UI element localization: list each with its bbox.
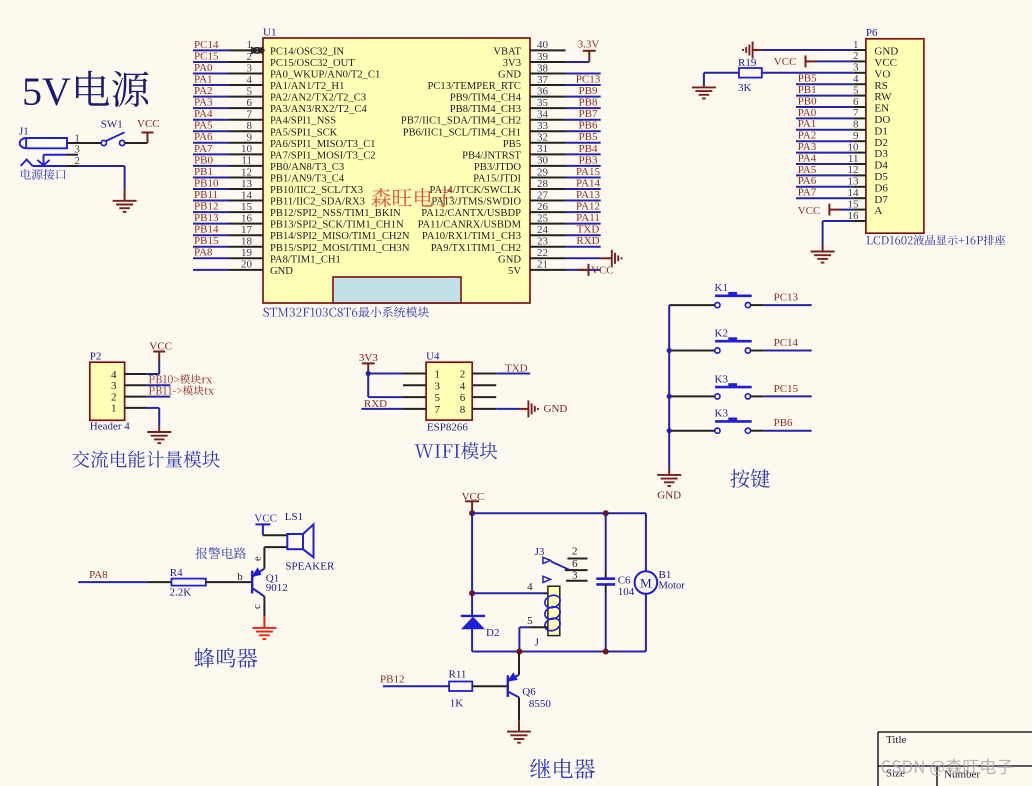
wire SW1 to VCC	[125, 142, 148, 144]
P6 pin 4 RS	[796, 73, 888, 92]
wire U4 pin 7 net RXD	[361, 398, 426, 410]
svg-text:PA4: PA4	[798, 152, 817, 164]
svg-text:6: 6	[853, 96, 859, 108]
speaker LS1	[285, 511, 335, 573]
svg-text:VCC: VCC	[798, 205, 821, 217]
svg-text:Size: Size	[886, 768, 905, 780]
node key bus junction	[667, 348, 672, 353]
wire Q6 collector up	[518, 652, 520, 675]
svg-text:3: 3	[853, 62, 859, 74]
svg-text:PA2: PA2	[798, 130, 817, 142]
svg-text:U4: U4	[426, 351, 440, 363]
svg-text:PB13/SPI2_SCK/TIM1_CH1N: PB13/SPI2_SCK/TIM1_CH1N	[270, 220, 404, 231]
power port 3V3	[359, 352, 378, 397]
U1 pin 39 3V3	[503, 51, 590, 69]
svg-text:PA8: PA8	[89, 569, 108, 581]
svg-text:PB3/JTDO: PB3/JTDO	[474, 162, 521, 173]
watermark red	[371, 188, 453, 207]
wire R11 to Q6 base	[472, 685, 508, 687]
svg-text:LS1: LS1	[285, 511, 303, 523]
ground P6	[811, 252, 835, 263]
svg-text:PB4/JNTRST: PB4/JNTRST	[462, 150, 521, 161]
U1 pin 11 PB0/AN8/T3_C3	[193, 154, 344, 173]
P2 pin 3	[111, 380, 147, 392]
U1 pin 24 PA10/RX1/TIM1_CH3	[422, 224, 601, 243]
svg-text:1: 1	[435, 369, 441, 381]
svg-text:PA2/AN2/TX2/T2_C3: PA2/AN2/TX2/T2_C3	[270, 93, 366, 104]
svg-text:PA1: PA1	[194, 73, 213, 85]
svg-text:TXD: TXD	[577, 224, 600, 236]
svg-text:PB0: PB0	[798, 95, 817, 107]
svg-text:6: 6	[572, 558, 578, 570]
svg-text:PA13/JTMS/SWDIO: PA13/JTMS/SWDIO	[431, 197, 521, 208]
svg-text:VBAT: VBAT	[493, 46, 521, 57]
svg-text:PC14: PC14	[774, 337, 799, 349]
svg-text:PB14: PB14	[194, 224, 219, 236]
buzzer section caption	[194, 648, 257, 668]
svg-text:D6: D6	[874, 182, 888, 194]
svg-text:3: 3	[247, 62, 253, 74]
title block labels	[886, 734, 980, 781]
svg-text:Motor: Motor	[659, 580, 686, 591]
node bottom junction C6	[603, 649, 609, 655]
svg-text:RXD: RXD	[576, 235, 599, 247]
ground P2	[147, 432, 171, 443]
svg-text:RS: RS	[874, 80, 887, 92]
connector P2 Header 4 body	[90, 362, 125, 420]
svg-text:EN: EN	[874, 103, 889, 115]
svg-text:PA3: PA3	[194, 97, 213, 109]
wire U4 pin 5	[368, 396, 426, 398]
svg-text:10: 10	[241, 143, 253, 155]
resistor R19	[704, 57, 853, 94]
svg-text:GND: GND	[874, 46, 898, 58]
svg-text:VCC: VCC	[254, 513, 277, 525]
J3 pin 3	[566, 569, 587, 581]
svg-text:3.3V: 3.3V	[578, 38, 600, 50]
svg-text:PC15/OSC32_OUT: PC15/OSC32_OUT	[270, 58, 355, 69]
svg-text:2: 2	[247, 51, 253, 63]
svg-text:PA0: PA0	[194, 62, 213, 74]
P6 pin 3 VO	[853, 62, 890, 81]
svg-text:VO: VO	[874, 68, 890, 80]
svg-text:PB0: PB0	[194, 154, 213, 166]
svg-text:b: b	[237, 571, 243, 583]
P6 pin 16	[848, 210, 866, 222]
svg-text:PC14: PC14	[194, 39, 219, 51]
svg-text:PB5: PB5	[579, 131, 598, 143]
pushbutton K3 net PC15	[669, 373, 812, 399]
svg-text:6: 6	[460, 392, 466, 404]
node 3V3 junction	[366, 371, 371, 376]
svg-text:PA6/SPI1_MISO/T3_C1: PA6/SPI1_MISO/T3_C1	[270, 139, 376, 150]
svg-text:5V: 5V	[22, 69, 71, 114]
svg-text:3: 3	[435, 380, 441, 392]
svg-text:SW1: SW1	[101, 118, 123, 130]
svg-text:ESP8266: ESP8266	[427, 422, 468, 434]
U1 pin 35 PB8/TIM4_CH3	[450, 97, 601, 116]
svg-text:Header 4: Header 4	[90, 420, 131, 432]
svg-text:D7: D7	[874, 194, 888, 206]
svg-text:19: 19	[241, 247, 253, 259]
relay coil J	[535, 586, 562, 648]
svg-text:PB13: PB13	[194, 212, 219, 224]
svg-text:31: 31	[537, 143, 548, 155]
svg-text:9: 9	[247, 132, 253, 144]
svg-text:e: e	[253, 556, 264, 561]
relay section caption	[530, 759, 595, 779]
svg-text:PA5/SPI1_SCK: PA5/SPI1_SCK	[270, 127, 338, 138]
svg-text:11: 11	[241, 155, 252, 167]
svg-text:GND: GND	[498, 254, 521, 265]
svg-text:K2: K2	[715, 328, 728, 340]
U1 pin 36 PB9/TIM4_CH4	[450, 85, 601, 104]
U1 pin 16 PB13/SPI2_SCK/TIM1_CH1N	[193, 212, 404, 231]
U1 pin 17 PB14/SPI2_MISO/TIM1_CH2N	[193, 224, 410, 243]
wire coil pin 5	[519, 615, 548, 652]
connector P6 LCD header body	[866, 39, 924, 233]
power port VCC buzzer	[254, 513, 277, 536]
U4 pins 7/8	[435, 404, 466, 416]
J1 pin 1	[67, 132, 102, 144]
wire Q1 emitter to speaker	[264, 547, 287, 569]
resistor R11 1K	[449, 669, 473, 710]
P2 pin 1	[111, 403, 147, 415]
svg-text:PB0/AN8/T3_C3: PB0/AN8/T3_C3	[270, 162, 344, 173]
svg-text:PA1/AN1/T2_H1: PA1/AN1/T2_H1	[270, 81, 344, 92]
svg-text:PA3: PA3	[798, 141, 817, 153]
power port VCC	[137, 118, 160, 143]
svg-text:18: 18	[241, 236, 253, 248]
svg-text:PB3: PB3	[579, 154, 598, 166]
svg-text:3V3: 3V3	[503, 58, 521, 69]
U4 pins 1/2	[435, 369, 466, 381]
svg-text:C6: C6	[618, 574, 631, 586]
ground red buzzer	[252, 628, 276, 639]
node VCC junction	[469, 510, 475, 516]
svg-text:1K: 1K	[450, 698, 464, 710]
wire P2 pin 1 to ground	[147, 408, 159, 432]
U1 pin 2 PC15/OSC32_OUT	[193, 50, 355, 69]
svg-text:PB8/TIM4_CH3: PB8/TIM4_CH3	[450, 104, 521, 115]
alarm caption	[196, 547, 246, 559]
U1 pin 37 PC13/TEMPER_RTC	[427, 73, 600, 92]
svg-text:VCC: VCC	[591, 265, 614, 277]
svg-text:PB1: PB1	[194, 166, 213, 178]
wire Q6 emitter to ground	[518, 697, 520, 731]
svg-text:5: 5	[247, 85, 253, 97]
wire left rail	[471, 513, 473, 651]
svg-text:5V: 5V	[508, 266, 521, 277]
U1 pin 31 PB4/JNTRST	[462, 143, 601, 162]
svg-text:VCC: VCC	[874, 57, 897, 69]
svg-text:15: 15	[848, 198, 860, 210]
transistor Q1 9012 PNP	[252, 568, 288, 596]
svg-text:D1: D1	[874, 125, 887, 137]
switch SW1	[101, 118, 125, 145]
wire U4 pin 6 stub	[472, 396, 496, 398]
svg-text:PA13: PA13	[576, 189, 601, 201]
wire P2 pin 2 net PB11	[147, 396, 171, 398]
U1 pin 30 PB3/JTDO	[474, 154, 601, 173]
svg-text:4: 4	[527, 581, 533, 593]
U1 internal display sub-block	[333, 277, 461, 303]
svg-text:PA10/RX1/TIM1_CH3: PA10/RX1/TIM1_CH3	[422, 231, 521, 242]
svg-text:PA12: PA12	[576, 201, 600, 213]
svg-text:PA15: PA15	[576, 166, 601, 178]
U1 pin 28 PA14/JTCK/SWCLK	[430, 177, 601, 196]
svg-text:2: 2	[853, 50, 859, 62]
P2 section caption	[72, 451, 220, 468]
U1 pin 29 PA15/JTDI	[473, 166, 601, 185]
svg-text:R11: R11	[449, 669, 467, 681]
U1 pin 34 PB7/IIC1_SDA/TIM4_CH2	[401, 108, 601, 127]
svg-text:GND: GND	[498, 70, 521, 81]
U1 pin 6 PA3/AN3/RX2/T2_C4	[193, 97, 367, 116]
svg-text:PA14/JTCK/SWCLK: PA14/JTCK/SWCLK	[430, 185, 522, 196]
svg-text:10: 10	[848, 141, 860, 153]
wire U4 pin 1	[368, 373, 426, 375]
node key bus junction	[667, 394, 672, 399]
P6 pin 12 D5	[796, 164, 888, 183]
resistor R4 2.2K	[170, 567, 206, 599]
svg-text:4: 4	[853, 73, 859, 85]
svg-text:PB1: PB1	[798, 84, 817, 96]
svg-text:PB14/SPI2_MISO/TIM1_CH2N: PB14/SPI2_MISO/TIM1_CH2N	[270, 231, 410, 242]
svg-text:PB8: PB8	[579, 97, 598, 109]
P6 caption	[867, 235, 1006, 245]
title block frame	[878, 732, 1032, 786]
U1 pin 32 PB5	[503, 131, 601, 150]
P6 pin 2 VCC	[853, 50, 897, 69]
ground Q6	[507, 732, 531, 743]
svg-text:GND: GND	[544, 403, 568, 415]
svg-text:2: 2	[111, 391, 117, 403]
P6 pin 6 EN	[796, 95, 889, 114]
svg-text:PB10: PB10	[194, 177, 219, 189]
svg-text:D5: D5	[874, 171, 888, 183]
ground GND keys	[657, 475, 681, 502]
wire P2 pin 3 net PB10	[147, 384, 171, 386]
U4 pins 3/4	[435, 380, 466, 392]
svg-text:K3: K3	[715, 408, 729, 420]
keys section caption	[730, 469, 770, 488]
U1 pin 15 PB12/SPI2_NSS/TIM1_BKIN	[193, 201, 401, 220]
svg-text:14: 14	[241, 189, 253, 201]
U1 pin 20 GND	[193, 259, 293, 277]
svg-text:6: 6	[247, 97, 253, 109]
svg-text:PA5: PA5	[194, 120, 213, 132]
svg-text:2.2K: 2.2K	[170, 587, 192, 599]
ground at U1 pin 22	[601, 250, 622, 267]
wire U4 pin 2 net TXD	[472, 362, 530, 374]
P2 pin 4	[111, 369, 147, 381]
relay contacts J3	[535, 546, 570, 583]
svg-text:PA7: PA7	[194, 143, 213, 155]
svg-text:RW: RW	[874, 91, 892, 103]
wire net PB12	[380, 674, 449, 687]
P6 pin 1 GND	[853, 39, 898, 58]
J1 pin 3 contact	[37, 144, 80, 166]
svg-text:12: 12	[241, 166, 252, 178]
svg-text:7: 7	[247, 109, 253, 121]
P6 pin 5 RW	[796, 84, 892, 103]
U1 pin 5 PA2/AN2/TX2/T2_C3	[193, 85, 366, 104]
svg-text:M: M	[640, 575, 652, 590]
svg-text:PB9: PB9	[579, 85, 598, 97]
P6 pin 10 D3	[796, 141, 888, 160]
U1 module caption	[263, 307, 429, 318]
watermark CSDN gray	[882, 759, 1013, 776]
svg-text:P2: P2	[90, 351, 102, 363]
svg-text:D4: D4	[874, 160, 888, 172]
node coil junction	[469, 590, 475, 596]
U1 pin 8 PA5/SPI1_SCK	[193, 120, 338, 139]
svg-text:PA2: PA2	[194, 85, 213, 97]
svg-text:GND: GND	[657, 490, 681, 502]
svg-text:PA6: PA6	[194, 131, 213, 143]
op-amp U1 STM32F103C8T6 module body	[263, 38, 530, 303]
U1 pin 38 GND	[498, 62, 601, 80]
ESP section caption	[415, 442, 498, 459]
svg-text:PA5: PA5	[798, 164, 817, 176]
wire bottom rail	[472, 651, 646, 653]
svg-text:3K: 3K	[738, 82, 752, 94]
power port 3.3V at U1 pin 39	[578, 38, 600, 62]
wire U4 pin 3 stub	[403, 384, 426, 386]
power port VCC at P2 pin 4	[147, 340, 172, 374]
svg-text:SPEAKER: SPEAKER	[285, 561, 335, 573]
node key bus junction	[667, 428, 672, 433]
svg-text:A: A	[874, 205, 882, 217]
svg-text:PA4: PA4	[194, 108, 213, 120]
svg-text:PA4/SPI1_NSS: PA4/SPI1_NSS	[270, 116, 336, 127]
svg-text:PA14: PA14	[576, 177, 601, 189]
svg-text:B1: B1	[659, 569, 672, 581]
svg-text:PA8/TIM1_CH1: PA8/TIM1_CH1	[270, 254, 341, 265]
svg-text:PA12/CANTX/USBDP: PA12/CANTX/USBDP	[421, 208, 521, 219]
svg-text:26: 26	[537, 201, 549, 213]
diode D2	[461, 616, 500, 639]
ground power section	[113, 201, 137, 212]
svg-text:GND: GND	[270, 266, 293, 277]
svg-text:J3: J3	[535, 546, 545, 558]
U1 pin 14 PB11/IIC2_SDA/RX3	[193, 189, 365, 208]
pushbutton K1 net PC13	[669, 282, 812, 308]
capacitor C6 104	[596, 513, 634, 651]
svg-text:K3: K3	[715, 373, 729, 385]
power port VCC relay	[462, 491, 485, 513]
J3 pin 2	[567, 546, 587, 559]
motor B1	[635, 513, 686, 651]
svg-text:7: 7	[853, 107, 859, 119]
svg-text:104: 104	[618, 586, 635, 598]
svg-text:PA0_WKUP/AN0/T2_C1: PA0_WKUP/AN0/T2_C1	[270, 70, 380, 81]
svg-text:R4: R4	[170, 567, 183, 579]
U1 pin 25 PA11/CANRX/USBDM	[418, 212, 601, 231]
svg-text:3: 3	[111, 380, 117, 392]
svg-text:5: 5	[527, 615, 533, 627]
svg-text:PA1: PA1	[798, 118, 817, 130]
wire coil pin 4	[472, 581, 548, 593]
U1 pin 3 PA0_WKUP/AN0/T2_C1	[193, 62, 380, 81]
J1 caption	[21, 169, 66, 180]
svg-text:VCC: VCC	[137, 118, 160, 130]
P6 pin 14 D7	[796, 187, 888, 206]
svg-text:8550: 8550	[529, 698, 552, 710]
svg-text:PA6: PA6	[798, 175, 817, 187]
svg-text:DO: DO	[874, 114, 890, 126]
svg-text:PA7: PA7	[798, 187, 817, 199]
svg-text:PB6: PB6	[774, 417, 793, 429]
wire Q1 collector to ground	[263, 596, 265, 628]
svg-text:PB6/IIC1_SCL/TIM4_CH1: PB6/IIC1_SCL/TIM4_CH1	[403, 127, 521, 138]
module U4 ESP8266 body	[426, 362, 472, 420]
svg-text:PC15: PC15	[774, 383, 799, 395]
svg-text:PB7: PB7	[579, 108, 598, 120]
svg-text:PB11/IIC2_SDA/RX3: PB11/IIC2_SDA/RX3	[270, 197, 365, 208]
svg-text:PB12/SPI2_NSS/TIM1_BKIN: PB12/SPI2_NSS/TIM1_BKIN	[270, 208, 401, 219]
svg-text:PB5: PB5	[503, 139, 521, 150]
P6 pin 7 DO	[796, 107, 890, 126]
svg-text:PC13: PC13	[576, 73, 601, 85]
J3 pin 6	[565, 558, 588, 570]
svg-text:PB10/IIC2_SCL/TX3: PB10/IIC2_SCL/TX3	[270, 185, 363, 196]
svg-text:3: 3	[572, 569, 578, 581]
wire net PA8	[78, 569, 171, 582]
U1 pin 27 PA13/JTMS/SWDIO	[431, 189, 600, 208]
ground GND at U4 pin 8	[528, 400, 567, 417]
svg-text:PB15: PB15	[194, 235, 219, 247]
U1 pin 26 PA12/CANTX/USBDP	[421, 201, 600, 220]
U1 pin 7 PA4/SPI1_NSS	[193, 108, 336, 127]
svg-text:2: 2	[460, 369, 466, 381]
svg-text:PB5: PB5	[798, 73, 817, 85]
svg-text:PA11/CANRX/USBDM: PA11/CANRX/USBDM	[418, 220, 522, 231]
svg-text:J: J	[535, 636, 540, 648]
svg-text:PA3/AN3/RX2/T2_C4: PA3/AN3/RX2/T2_C4	[270, 104, 367, 115]
wire P6 pin 16 to ground	[823, 221, 854, 252]
wire J1 pin2 to ground	[78, 166, 125, 201]
wire key bus vertical	[668, 305, 670, 469]
svg-text:1: 1	[111, 403, 117, 415]
wire VCC to speaker	[263, 534, 287, 536]
U1 pin 4 PA1/AN1/T2_H1	[193, 73, 344, 92]
U1 pin 12 PB1/AN9/T3_C4	[193, 166, 345, 185]
ground at P6 pin 1	[743, 42, 853, 59]
connector J1 power jack	[19, 126, 67, 149]
U1 pin 22 GND	[498, 247, 601, 265]
svg-text:PA11: PA11	[576, 212, 600, 224]
svg-text:PC14/OSC32_IN: PC14/OSC32_IN	[270, 46, 345, 57]
power port VCC at P6 pin 15	[798, 204, 854, 217]
svg-text:8: 8	[247, 120, 253, 132]
J1 pin 2 contact	[21, 155, 80, 167]
svg-text:17: 17	[241, 224, 253, 236]
svg-text:Title: Title	[886, 734, 907, 746]
svg-text:9: 9	[853, 130, 859, 142]
U1 pin 19 PA8/TIM1_CH1	[193, 247, 341, 266]
svg-text:Q6: Q6	[522, 686, 536, 698]
svg-text:K1: K1	[715, 282, 728, 294]
svg-text:PB12: PB12	[194, 201, 218, 213]
svg-text:PB11: PB11	[194, 189, 218, 201]
svg-text:37: 37	[537, 74, 549, 86]
wire top rail	[472, 512, 646, 514]
P6 pin 9 D2	[796, 130, 888, 149]
U1 pin 33 PB6/IIC1_SCL/TIM4_CH1	[403, 120, 601, 139]
svg-text:4: 4	[111, 369, 117, 381]
